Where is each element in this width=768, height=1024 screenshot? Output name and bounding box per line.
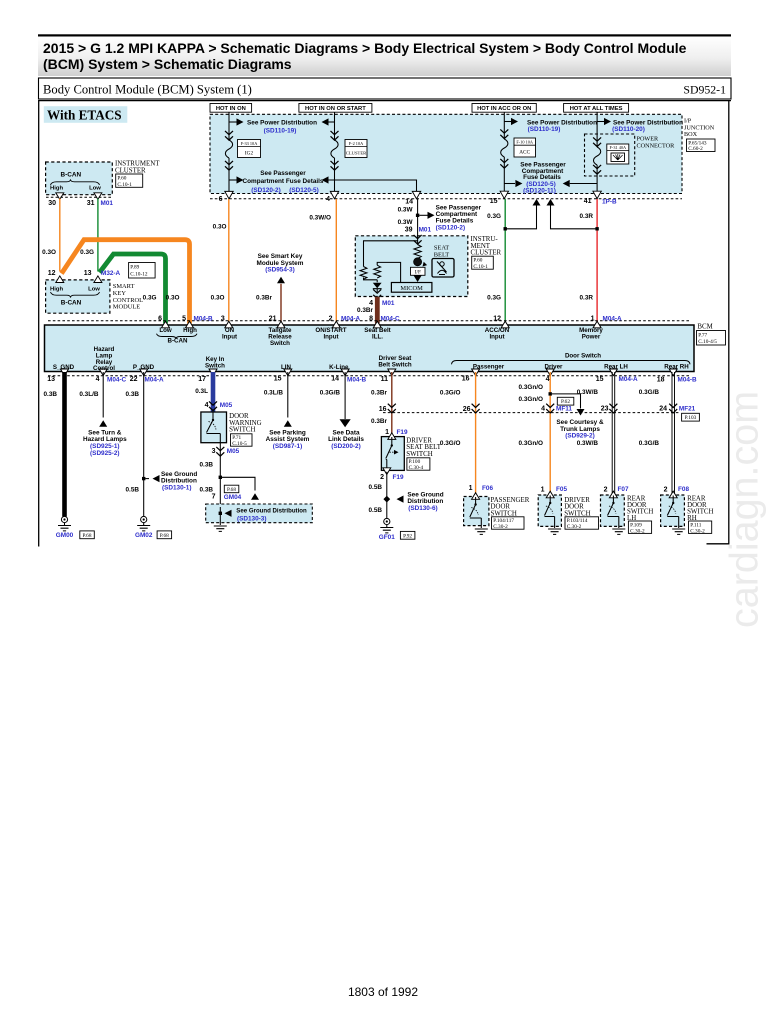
svg-text:High: High <box>183 327 197 334</box>
svg-text:MF21: MF21 <box>679 406 696 413</box>
svg-text:2015 > G 1.2 MPI KAPPA > Schem: 2015 > G 1.2 MPI KAPPA > Schematic Diagr… <box>43 40 687 56</box>
svg-text:HOT AT ALL TIMES: HOT AT ALL TIMES <box>570 106 623 112</box>
svg-text:0.3Br: 0.3Br <box>256 295 272 302</box>
svg-text:GM02: GM02 <box>135 532 153 539</box>
svg-text:0.3L: 0.3L <box>195 388 208 395</box>
svg-text:1: 1 <box>541 487 545 494</box>
svg-text:1P-B: 1P-B <box>602 198 617 205</box>
instrument cluster dashed module <box>46 162 113 195</box>
svg-text:MODULE: MODULE <box>113 304 140 311</box>
svg-text:16: 16 <box>462 376 470 383</box>
arrow from CLUSTER wire to text <box>322 118 329 125</box>
svg-text:Distribution: Distribution <box>161 477 197 484</box>
svg-text:P.77: P.77 <box>698 333 707 339</box>
svg-text:S_GND: S_GND <box>53 364 75 371</box>
wire: B-CAN Low thick green bus <box>100 254 166 324</box>
svg-text:0.3W/O: 0.3W/O <box>309 215 331 222</box>
svg-text:0.3W/B: 0.3W/B <box>577 389 599 396</box>
svg-text:(SD110-19): (SD110-19) <box>528 126 561 133</box>
svg-text:0.3G: 0.3G <box>143 295 157 302</box>
svg-text:18: 18 <box>657 377 665 384</box>
node and courtesy branch <box>549 392 552 395</box>
With ETACS label <box>44 106 128 123</box>
svg-text:6: 6 <box>158 315 162 322</box>
svg-text:P.103: P.103 <box>685 415 697 421</box>
svg-text:P_GND: P_GND <box>133 364 155 371</box>
svg-text:2: 2 <box>604 487 608 494</box>
label HOT IN ACC OR ON <box>472 104 536 113</box>
svg-text:0.3W/B: 0.3W/B <box>577 440 599 447</box>
fuse F-2 CLUSTER <box>331 140 338 158</box>
svg-text:13: 13 <box>47 376 55 383</box>
svg-text:C.10-1: C.10-1 <box>117 182 132 188</box>
wire pin14 to cluster <box>417 199 419 236</box>
svg-text:(SD120-2): (SD120-2) <box>436 224 465 231</box>
svg-text:5: 5 <box>182 315 186 322</box>
svg-text:M05: M05 <box>220 402 233 409</box>
svg-text:17: 17 <box>198 376 206 383</box>
svg-text:B-CAN: B-CAN <box>168 338 188 345</box>
svg-text:(SD110-19): (SD110-19) <box>264 128 297 135</box>
svg-text:0.3Gn/O: 0.3Gn/O <box>518 384 543 391</box>
svg-text:30: 30 <box>48 200 56 207</box>
svg-text:15: 15 <box>274 375 282 382</box>
wire: hazard lamp relay control <box>102 372 104 418</box>
svg-text:(SD925-2): (SD925-2) <box>90 450 119 457</box>
svg-text:BCM: BCM <box>697 323 712 330</box>
svg-text:0.3W: 0.3W <box>398 206 414 213</box>
door switch bracket <box>452 361 691 365</box>
svg-text:0.3O: 0.3O <box>211 295 225 302</box>
door warning switch <box>201 412 227 443</box>
svg-text:0.3G/B: 0.3G/B <box>639 389 660 396</box>
svg-text:Input: Input <box>222 334 237 341</box>
svg-text:F19: F19 <box>393 474 404 481</box>
wire: S_GND thick black <box>62 372 67 517</box>
wire green ACC feed to BCM pin12 <box>504 199 506 322</box>
svg-text:2: 2 <box>380 474 384 481</box>
power connector dashed box <box>585 134 635 176</box>
svg-text:P.89: P.89 <box>130 265 139 271</box>
svg-text:K-Line: K-Line <box>329 364 349 371</box>
svg-text:F-2 10A: F-2 10A <box>349 141 364 146</box>
svg-text:IG2: IG2 <box>245 151 254 157</box>
svg-text:0.3O: 0.3O <box>166 295 180 302</box>
passenger door switch <box>464 497 489 526</box>
wire: fuse IG2 feed <box>228 112 230 199</box>
svg-text:39: 39 <box>405 227 413 234</box>
svg-text:7: 7 <box>212 494 216 501</box>
svg-text:F07: F07 <box>618 486 629 493</box>
svg-text:0.3Br: 0.3Br <box>371 418 387 425</box>
svg-text:Low: Low <box>159 327 172 334</box>
svg-text:Control: Control <box>93 365 115 372</box>
svg-text:Body Control Module (BCM) Syst: Body Control Module (BCM) System (1) <box>43 83 252 97</box>
wire: driver door switch orange <box>549 372 551 495</box>
svg-text:Driver: Driver <box>545 363 563 370</box>
fuse label box IG2 <box>238 140 261 158</box>
svg-text:C.30-4: C.30-4 <box>409 465 424 471</box>
rear door switch RH <box>661 495 685 526</box>
arrows flanking fuse details text <box>229 179 237 181</box>
svg-text:0.5B: 0.5B <box>126 487 140 494</box>
wire below seat belt switch <box>386 472 388 518</box>
svg-text:C.30-2: C.30-2 <box>630 528 645 534</box>
svg-text:(SD925-1): (SD925-1) <box>90 443 119 450</box>
svg-text:21: 21 <box>269 315 277 322</box>
svg-text:Passenger: Passenger <box>473 363 505 370</box>
svg-text:26: 26 <box>463 406 471 413</box>
svg-text:0.3R: 0.3R <box>580 213 594 220</box>
svg-text:M01: M01 <box>101 200 114 207</box>
svg-text:2: 2 <box>329 315 333 322</box>
svg-text:Low: Low <box>89 186 101 192</box>
svg-text:BOX: BOX <box>684 131 698 138</box>
svg-text:C.30-2: C.30-2 <box>493 524 508 530</box>
svg-text:Compartment Fuse Details: Compartment Fuse Details <box>243 178 324 185</box>
svg-text:0.5B: 0.5B <box>369 507 383 514</box>
connectors at power box exit <box>225 191 233 198</box>
svg-text:(BCM) System > Schematic Diagr: (BCM) System > Schematic Diagrams <box>43 56 292 72</box>
svg-text:0.3B: 0.3B <box>200 461 214 468</box>
svg-text:0.3G: 0.3G <box>487 295 501 302</box>
label HOT IN ON OR START <box>299 104 372 113</box>
node on P_GND <box>142 477 145 480</box>
wire: power connector feed <box>596 112 598 199</box>
svg-text:B-CAN: B-CAN <box>61 172 82 179</box>
svg-text:F-10 10A: F-10 10A <box>516 139 533 144</box>
svg-text:See Passenger: See Passenger <box>260 170 306 177</box>
svg-text:P.68: P.68 <box>227 487 236 493</box>
svg-text:0.5B: 0.5B <box>369 484 383 491</box>
title box <box>39 78 732 99</box>
branch to resistor pair <box>364 241 418 283</box>
svg-text:Rear RH: Rear RH <box>664 363 689 370</box>
driver seat belt switch <box>381 437 404 471</box>
pin dashed lines <box>48 321 690 376</box>
wire: fuse ACC feed <box>503 112 505 199</box>
svg-text:C.30-2: C.30-2 <box>567 524 582 530</box>
svg-text:(SD130-6): (SD130-6) <box>408 505 437 512</box>
smart key control module dashed box <box>46 280 110 313</box>
fuse F-10 ACC <box>501 139 508 157</box>
svg-text:See Power Distribution: See Power Distribution <box>247 119 317 126</box>
svg-text:1803 of 1992: 1803 of 1992 <box>348 985 418 999</box>
svg-text:13: 13 <box>84 270 92 277</box>
svg-text:0.3G/O: 0.3G/O <box>440 390 461 397</box>
ground GF01 <box>380 518 393 533</box>
svg-text:Switch: Switch <box>205 363 225 370</box>
svg-text:M04-A: M04-A <box>619 376 639 383</box>
wire: branch to pin 14 <box>329 180 417 192</box>
connector into cluster <box>414 235 422 244</box>
svg-text:4: 4 <box>96 376 100 383</box>
rear door switch LH <box>601 495 625 526</box>
label HOT AT ALL TIMES <box>564 104 629 113</box>
connector dashed line M01 <box>46 196 112 198</box>
connector bumps smart key top <box>56 276 64 283</box>
svg-text:0.3L/B: 0.3L/B <box>264 390 284 397</box>
wire: fuse CLUSTER feed <box>334 112 336 199</box>
svg-text:(SD110-20): (SD110-20) <box>612 126 645 133</box>
ground GM02 <box>137 516 150 531</box>
svg-text:41: 41 <box>584 198 592 205</box>
svg-text:12: 12 <box>48 270 56 277</box>
svg-text:Low: Low <box>88 286 100 292</box>
node and branch to ground ref <box>219 476 222 479</box>
svg-text:0.3G/O: 0.3G/O <box>440 440 461 447</box>
svg-text:P.68: P.68 <box>83 533 92 539</box>
svg-text:24: 24 <box>659 406 667 413</box>
svg-text:0.3W: 0.3W <box>398 219 414 226</box>
svg-text:ACC: ACC <box>519 150 530 156</box>
top black rule <box>38 34 731 36</box>
svg-text:B-CAN: B-CAN <box>61 300 82 307</box>
svg-text:0.3O: 0.3O <box>42 249 56 256</box>
svg-text:M05: M05 <box>227 448 240 455</box>
svg-text:CLUSTER: CLUSTER <box>346 150 367 155</box>
svg-text:CLUSTER: CLUSTER <box>471 250 502 257</box>
connector bumps cluster bottom <box>56 193 64 200</box>
svg-text:C.30-2: C.30-2 <box>690 528 705 534</box>
svg-text:M04-C: M04-C <box>107 376 127 383</box>
svg-text:MF11: MF11 <box>556 406 572 413</box>
svg-text:See Ground Distribution: See Ground Distribution <box>236 508 307 515</box>
bracket under B-CAN <box>51 179 100 185</box>
wire: B-CAN High thin orange <box>59 199 61 272</box>
svg-text:0.3R: 0.3R <box>580 295 594 302</box>
svg-text:F08: F08 <box>678 486 689 493</box>
fuse label box ACC <box>514 138 536 157</box>
svg-text:I/F: I/F <box>415 270 421 276</box>
svg-text:SWITCH: SWITCH <box>406 451 432 458</box>
svg-text:0.3G: 0.3G <box>487 213 501 220</box>
svg-text:P.62: P.62 <box>561 399 570 405</box>
wire: P_GND <box>143 372 145 517</box>
wire: IG2 orange to BCM pin3 <box>228 199 230 322</box>
breadcrumb gradient strip <box>38 37 731 77</box>
svg-text:CONNECTOR: CONNECTOR <box>637 143 676 150</box>
svg-text:3: 3 <box>212 448 216 455</box>
fuse box: main dashed power box <box>210 114 682 193</box>
svg-text:POWER: POWER <box>637 135 660 142</box>
inline connector dashed line <box>383 412 679 414</box>
svg-text:0.3G/B: 0.3G/B <box>639 440 660 447</box>
svg-text:P.68: P.68 <box>160 533 169 539</box>
svg-text:23: 23 <box>601 406 609 413</box>
svg-text:M04-A: M04-A <box>145 376 165 383</box>
svg-text:15: 15 <box>596 376 604 383</box>
svg-text:HOT IN ON: HOT IN ON <box>216 106 246 112</box>
svg-text:C.10-4/5: C.10-4/5 <box>698 339 717 345</box>
svg-text:4: 4 <box>326 196 330 203</box>
branch up into fuse box <box>505 206 536 229</box>
svg-text:HOT IN ON OR START: HOT IN ON OR START <box>305 106 366 112</box>
connector box P.60 C.10-1 <box>116 174 143 187</box>
svg-text:GM04: GM04 <box>224 494 242 501</box>
svg-text:M04-B: M04-B <box>194 316 214 323</box>
svg-text:M01: M01 <box>419 227 432 234</box>
svg-text:Input: Input <box>489 334 504 341</box>
svg-text:2: 2 <box>664 487 668 494</box>
connector on IG2 wire <box>225 131 233 140</box>
wire into coil <box>417 236 419 245</box>
svg-text:Hazard Lamps: Hazard Lamps <box>83 436 127 443</box>
svg-text:14: 14 <box>405 199 413 206</box>
svg-text:cardiagn.com: cardiagn.com <box>723 391 767 628</box>
driver door switch <box>538 495 561 526</box>
svg-text:0.3O: 0.3O <box>213 223 227 230</box>
BCM MODULE <box>45 325 695 372</box>
I/F box <box>411 267 426 275</box>
wire red memory feed to BCM pin1 <box>596 199 598 322</box>
svg-text:Rear LH: Rear LH <box>604 363 628 370</box>
wire: B-CAN Low thin green <box>97 199 99 272</box>
wire: driver seat belt brown <box>391 372 393 437</box>
svg-text:(SD987-1): (SD987-1) <box>273 443 302 450</box>
svg-text:Fuse Details: Fuse Details <box>523 174 561 181</box>
svg-text:22: 22 <box>130 376 138 383</box>
svg-text:C.10-5: C.10-5 <box>232 441 247 447</box>
see ground distribution SD130-3 dashed box <box>206 504 313 523</box>
svg-text:(SD929-2): (SD929-2) <box>565 433 594 440</box>
svg-text:0.3G: 0.3G <box>80 249 94 256</box>
wire: seat belt ILL thick brown <box>375 297 380 324</box>
connector box P.65/143 <box>687 139 716 152</box>
wire: LIN <box>287 372 289 418</box>
svg-text:14: 14 <box>331 375 339 382</box>
connector box P.60 <box>472 256 494 269</box>
svg-text:C.10-12: C.10-12 <box>130 272 148 278</box>
node on pin14 wire <box>416 214 419 217</box>
svg-text:Door Switch: Door Switch <box>565 353 601 360</box>
svg-text:SD952-1: SD952-1 <box>683 83 726 97</box>
svg-text:F19: F19 <box>397 429 408 436</box>
svg-text:With ETACS: With ETACS <box>47 107 122 122</box>
svg-text:High: High <box>50 286 63 292</box>
svg-text:3: 3 <box>221 315 225 322</box>
svg-text:M04-C: M04-C <box>381 315 401 322</box>
instrument cluster (seat belt) dashed module <box>355 236 468 297</box>
svg-text:0.3Gn/O: 0.3Gn/O <box>518 440 543 447</box>
wire: B-CAN High thick orange bus <box>62 240 190 324</box>
connector dashed line under power box <box>210 198 682 200</box>
svg-text:12: 12 <box>493 315 501 322</box>
svg-text:0.3Br: 0.3Br <box>371 390 387 397</box>
svg-text:0.3B: 0.3B <box>44 391 58 398</box>
arrow to See Power Distribution (left) <box>229 121 237 123</box>
svg-text:Distribution: Distribution <box>407 498 443 505</box>
svg-text:(SD130-1): (SD130-1) <box>162 485 191 492</box>
svg-text:MICOM: MICOM <box>400 285 423 292</box>
svg-text:(SD120-5): (SD120-5) <box>289 187 318 194</box>
coil (chime) <box>414 245 421 259</box>
resistor 1 <box>360 267 367 280</box>
svg-text:1: 1 <box>591 315 595 322</box>
connector out of cluster <box>373 289 381 298</box>
svg-text:(SD120-11): (SD120-11) <box>523 187 556 194</box>
arrow to See Power Distribution (right) <box>597 121 604 123</box>
svg-text:Power: Power <box>582 334 601 341</box>
svg-text:M32-A: M32-A <box>101 270 121 277</box>
svg-text:0.3G/B: 0.3G/B <box>320 390 341 397</box>
svg-text:8: 8 <box>369 315 373 322</box>
fuse F-31 40A <box>594 147 601 165</box>
svg-text:Switch: Switch <box>270 340 290 347</box>
wire: ON/START orange <box>335 199 337 322</box>
svg-text:SWITCH: SWITCH <box>229 427 255 434</box>
svg-text:ILL.: ILL. <box>372 334 383 341</box>
label HOT IN ON <box>210 104 252 113</box>
svg-text:HOT IN ACC OR ON: HOT IN ACC OR ON <box>477 106 531 112</box>
fuse F-33 IG2 <box>225 140 232 158</box>
svg-text:P.92: P.92 <box>403 533 412 539</box>
svg-text:M04-A: M04-A <box>341 316 361 323</box>
svg-text:P.60: P.60 <box>117 176 126 182</box>
svg-text:F-33 10A: F-33 10A <box>241 141 258 146</box>
bracket above B-CAN <box>51 292 100 298</box>
svg-text:0.3Br: 0.3Br <box>357 307 373 314</box>
svg-text:0.3B: 0.3B <box>126 391 140 398</box>
fuse label box F-31 with connector icon <box>607 144 629 164</box>
svg-text:6: 6 <box>219 196 223 203</box>
svg-text:CLUSTER: CLUSTER <box>115 167 146 174</box>
svg-text:(SD200-2): (SD200-2) <box>331 443 360 450</box>
svg-text:Input: Input <box>323 334 338 341</box>
svg-text:1: 1 <box>469 485 473 492</box>
svg-text:4: 4 <box>546 376 550 383</box>
svg-text:31: 31 <box>87 200 95 207</box>
svg-text:High: High <box>50 186 63 192</box>
svg-text:Link Details: Link Details <box>328 436 364 443</box>
svg-text:F-31 40A: F-31 40A <box>610 145 627 150</box>
wire below door warning switch <box>219 443 221 504</box>
svg-text:P.60: P.60 <box>473 258 482 264</box>
warning lamp <box>414 258 422 266</box>
wire: rear door RH double <box>672 372 675 495</box>
resistor 2 <box>374 265 381 278</box>
svg-text:0.3L/B: 0.3L/B <box>79 391 99 398</box>
svg-text:11: 11 <box>381 376 389 383</box>
svg-text:15: 15 <box>490 198 498 205</box>
diode <box>373 283 382 289</box>
svg-text:LIN: LIN <box>281 364 291 371</box>
svg-text:C.60-2: C.60-2 <box>688 146 703 152</box>
svg-text:C.10-1: C.10-1 <box>473 264 488 270</box>
MICOM box <box>391 283 432 293</box>
svg-text:GF01: GF01 <box>379 534 395 541</box>
svg-text:1: 1 <box>385 429 389 436</box>
cursor pointer at lamp <box>423 262 428 267</box>
schematic frame <box>39 100 731 547</box>
wire: rear door LH double <box>612 372 615 495</box>
svg-text:GM00: GM00 <box>56 532 74 539</box>
wire: K-Line <box>344 372 346 419</box>
connector box P.89 C.10-12 <box>129 263 156 279</box>
svg-text:M04-A: M04-A <box>603 316 623 323</box>
fuse label box CLUSTER <box>345 140 367 158</box>
ground GM00 <box>58 516 71 531</box>
svg-text:4: 4 <box>205 402 209 409</box>
svg-text:0.3Gn/O: 0.3Gn/O <box>518 396 543 403</box>
svg-text:F05: F05 <box>556 486 567 493</box>
svg-text:4: 4 <box>369 300 373 307</box>
arrow to See Power Distribution (ACC) <box>504 121 511 123</box>
svg-text:Belt Switch: Belt Switch <box>378 362 412 369</box>
svg-text:BELT: BELT <box>434 251 449 258</box>
svg-text:4: 4 <box>541 406 545 413</box>
svg-text:M04-B: M04-B <box>347 377 367 384</box>
